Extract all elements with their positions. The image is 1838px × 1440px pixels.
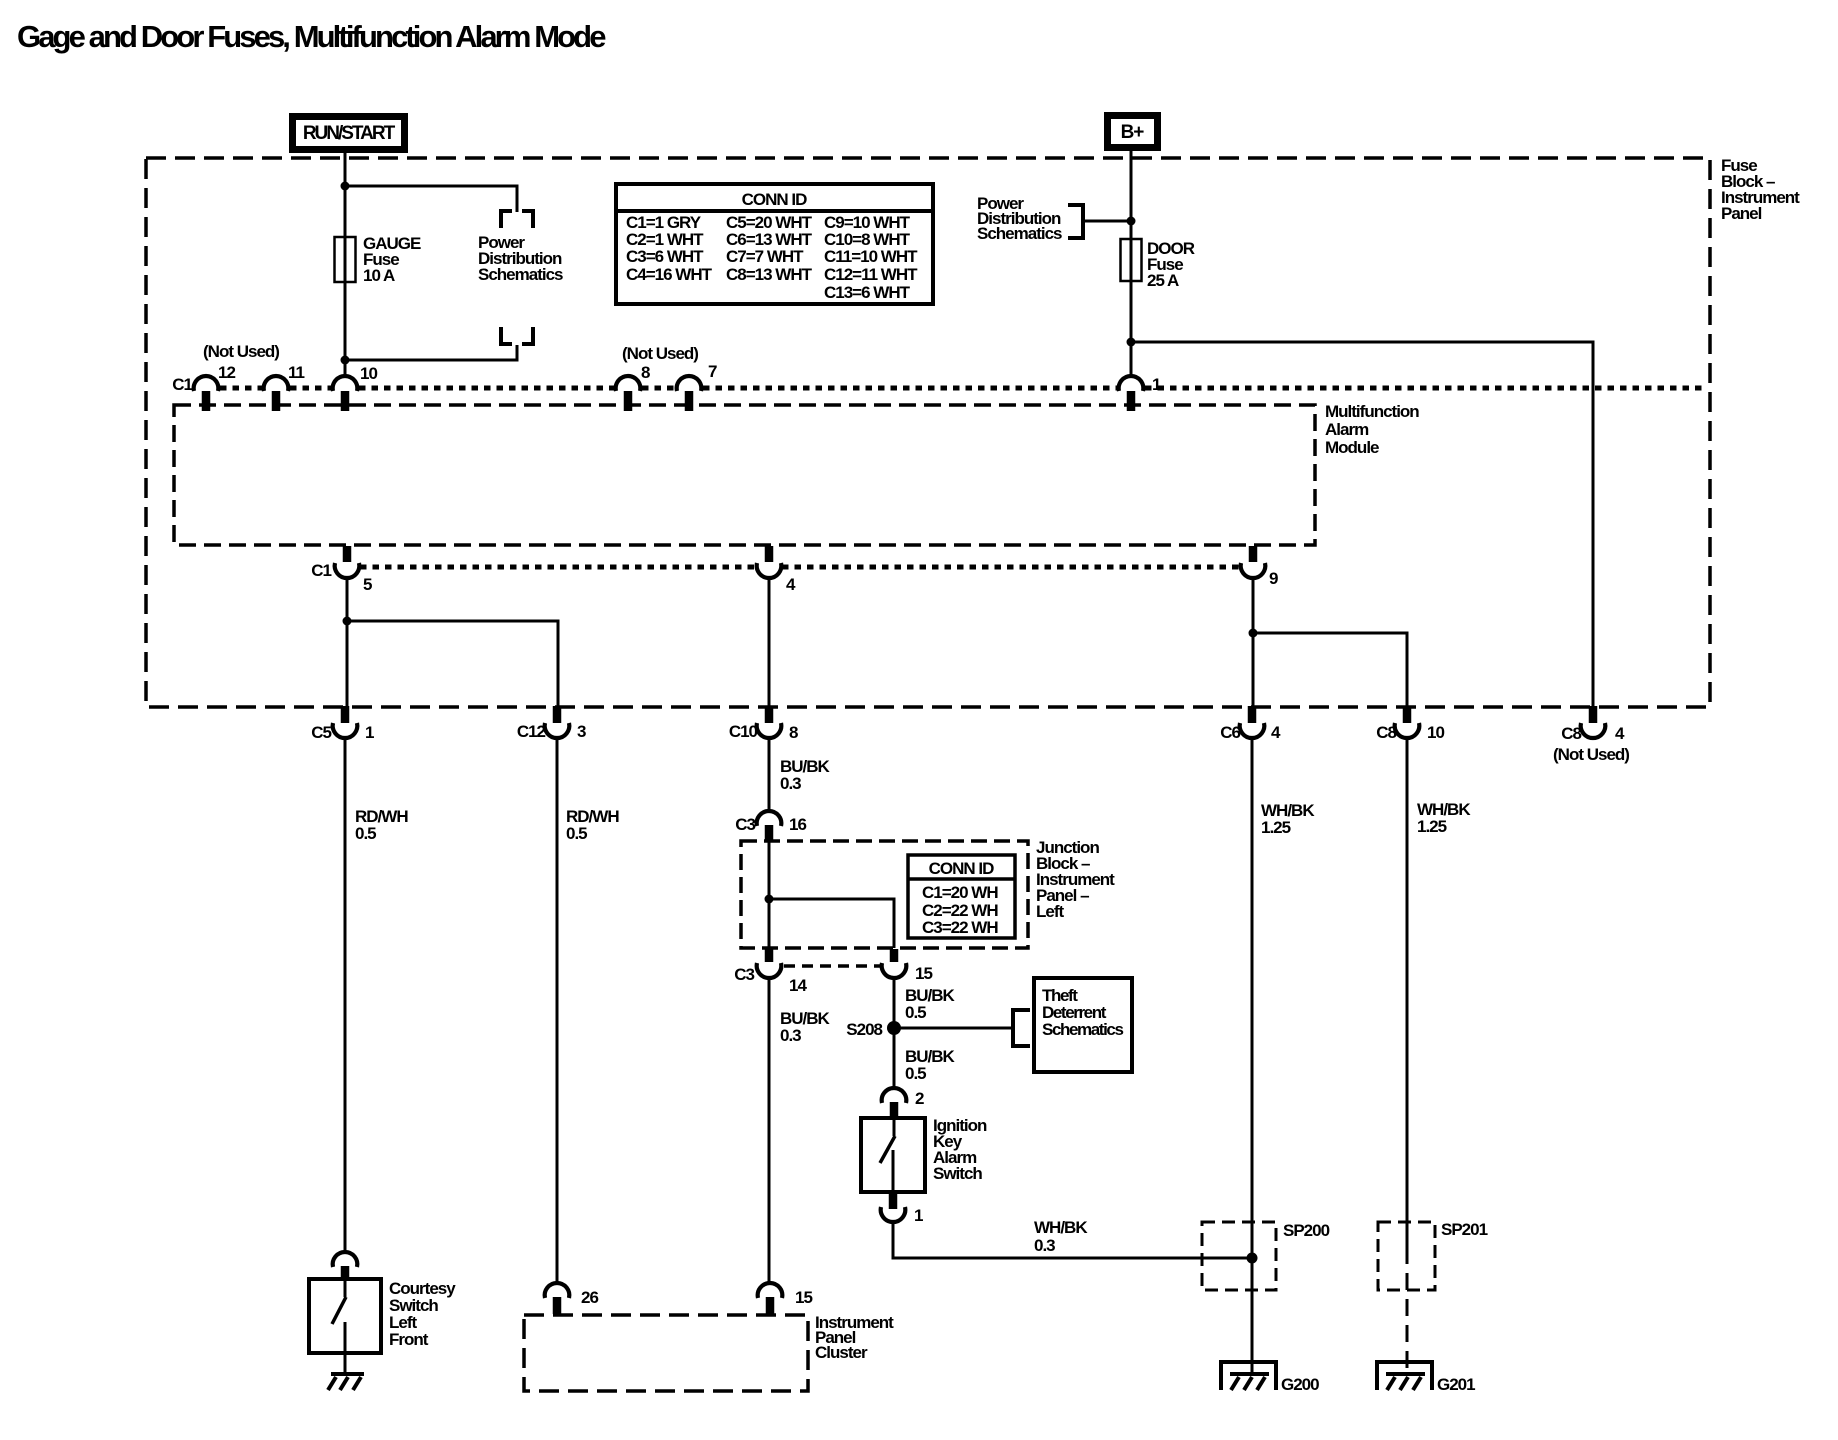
svg-text:14: 14: [789, 976, 807, 995]
svg-text:12: 12: [218, 363, 235, 382]
svg-text:C10: C10: [729, 722, 758, 741]
svg-text:S208: S208: [846, 1020, 882, 1039]
svg-text:26: 26: [581, 1288, 598, 1307]
svg-text:C12: C12: [517, 722, 546, 741]
svg-text:C1: C1: [172, 375, 192, 394]
svg-text:C6: C6: [1220, 723, 1240, 742]
svg-text:C1=20 WHC2=22 WHC3=22 WH: C1=20 WHC2=22 WHC3=22 WH: [922, 883, 998, 937]
svg-text:C5=20 WHTC6=13 WHTC7=7 WHTC8=1: C5=20 WHTC6=13 WHTC7=7 WHTC8=13 WHT: [726, 213, 813, 284]
svg-text:C1=1 GRYC2=1 WHTC3=6 WHTC4=16: C1=1 GRYC2=1 WHTC3=6 WHTC4=16 WHT: [626, 213, 713, 284]
svg-text:CONN ID: CONN ID: [742, 190, 808, 209]
svg-text:5: 5: [363, 575, 372, 594]
svg-text:2: 2: [915, 1089, 924, 1108]
svg-text:Gage and Door Fuses, Multifunc: Gage and Door Fuses, Multifunction Alarm…: [17, 19, 606, 54]
svg-text:11: 11: [288, 363, 305, 382]
svg-text:SP201: SP201: [1441, 1220, 1488, 1239]
svg-text:8: 8: [789, 723, 798, 742]
svg-text:SP200: SP200: [1283, 1221, 1330, 1240]
svg-text:7: 7: [708, 362, 717, 381]
svg-text:16: 16: [789, 815, 806, 834]
svg-text:1: 1: [914, 1206, 923, 1225]
svg-text:C3: C3: [735, 815, 755, 834]
svg-text:(Not Used): (Not Used): [622, 344, 698, 363]
svg-text:9: 9: [1269, 569, 1278, 588]
svg-text:15: 15: [915, 964, 932, 983]
svg-text:1: 1: [1152, 375, 1161, 394]
svg-text:G200: G200: [1281, 1375, 1319, 1394]
svg-text:C9=10 WHTC10=8 WHTC11=10 WHTC1: C9=10 WHTC10=8 WHTC11=10 WHTC12=11 WHTC1…: [824, 213, 918, 302]
svg-text:CONN ID: CONN ID: [929, 859, 995, 878]
svg-text:C5: C5: [311, 723, 331, 742]
svg-text:B+: B+: [1121, 122, 1145, 143]
svg-text:C3: C3: [734, 965, 754, 984]
svg-text:8: 8: [641, 363, 650, 382]
svg-text:1: 1: [365, 723, 374, 742]
svg-text:G201: G201: [1437, 1375, 1475, 1394]
svg-text:15: 15: [795, 1288, 812, 1307]
svg-text:C1: C1: [311, 561, 331, 580]
svg-text:C8: C8: [1561, 724, 1581, 743]
svg-text:3: 3: [577, 722, 586, 741]
svg-text:(Not Used): (Not Used): [203, 342, 279, 361]
svg-text:RUN/START: RUN/START: [303, 123, 396, 144]
svg-text:(Not Used): (Not Used): [1553, 745, 1629, 764]
svg-text:C8: C8: [1376, 723, 1396, 742]
svg-text:10: 10: [360, 364, 377, 383]
svg-text:10: 10: [1427, 723, 1444, 742]
